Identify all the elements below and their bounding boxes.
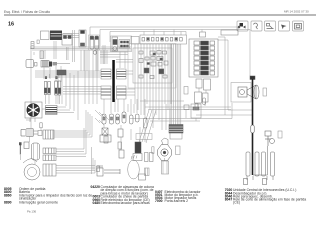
svg-text:a: a (238, 25, 240, 29)
svg-text:8047: 8047 (225, 198, 233, 202)
svg-text:Relé de corte de alimentação e: Relé de corte de alimentação em fase de … (233, 198, 306, 202)
svg-text:16: 16 (8, 22, 14, 28)
svg-text:Eletrobomba lavador para-brisa: Eletrobomba lavador para-brisas (101, 201, 150, 205)
svg-text:04220: 04220 (91, 185, 101, 189)
svg-text:7000: 7000 (155, 199, 163, 203)
svg-text:Interrupção geral corrente: Interrupção geral corrente (19, 201, 58, 205)
svg-text:MR 14 2002 07 30: MR 14 2002 07 30 (284, 10, 309, 14)
svg-text:(CE): (CE) (233, 201, 240, 205)
svg-text:0480: 0480 (93, 201, 101, 205)
svg-text:Pá 136: Pá 136 (27, 210, 37, 214)
svg-text:Porta-fusíveis 2: Porta-fusíveis 2 (165, 199, 189, 203)
svg-text:8860: 8860 (4, 193, 12, 197)
svg-text:8890: 8890 (4, 201, 12, 205)
svg-text:Esq. Eléct. / Fichas de Circui: Esq. Eléct. / Fichas de Circuito (4, 10, 50, 14)
